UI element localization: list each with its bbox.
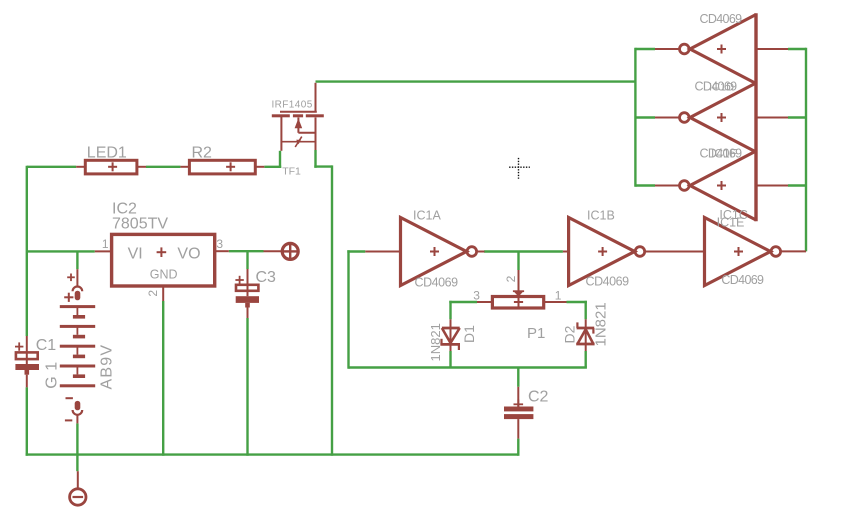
svg-text:1: 1 <box>102 237 109 251</box>
svg-text:R2: R2 <box>192 145 213 162</box>
svg-text:IRF1405: IRF1405 <box>272 100 313 111</box>
svg-text:C2: C2 <box>528 389 549 406</box>
svg-text:CD4069: CD4069 <box>415 275 459 289</box>
svg-text:2: 2 <box>146 290 160 297</box>
svg-text:7805TV: 7805TV <box>112 216 168 233</box>
svg-text:IC1B: IC1B <box>587 209 615 223</box>
svg-text:TF1: TF1 <box>282 165 301 177</box>
svg-text:1N821: 1N821 <box>593 302 610 346</box>
svg-text:C1: C1 <box>36 337 57 354</box>
svg-text:GND: GND <box>150 267 178 281</box>
svg-text:CD4069: CD4069 <box>586 275 630 289</box>
svg-text:D1: D1 <box>461 325 477 343</box>
svg-text:C3: C3 <box>256 269 277 286</box>
svg-text:VO: VO <box>177 245 200 262</box>
svg-text:IC1E: IC1E <box>717 216 745 230</box>
svg-text:D2: D2 <box>561 325 577 343</box>
svg-text:P1: P1 <box>527 325 545 342</box>
svg-text:CD4069: CD4069 <box>721 273 764 287</box>
svg-text:3: 3 <box>216 237 223 251</box>
svg-text:IC1A: IC1A <box>413 209 441 223</box>
svg-text:IC1F: IC1F <box>711 147 737 161</box>
svg-text:IC1D: IC1D <box>709 82 734 94</box>
svg-text:1: 1 <box>555 288 562 302</box>
svg-text:G1: G1 <box>44 356 61 388</box>
svg-text:VI: VI <box>128 245 143 262</box>
svg-text:AB9V: AB9V <box>99 344 116 390</box>
svg-text:LED1: LED1 <box>87 145 127 162</box>
svg-text:2: 2 <box>504 275 518 282</box>
svg-text:3: 3 <box>473 288 480 302</box>
svg-text:CD4069: CD4069 <box>700 12 743 26</box>
svg-text:1N821: 1N821 <box>428 323 443 361</box>
